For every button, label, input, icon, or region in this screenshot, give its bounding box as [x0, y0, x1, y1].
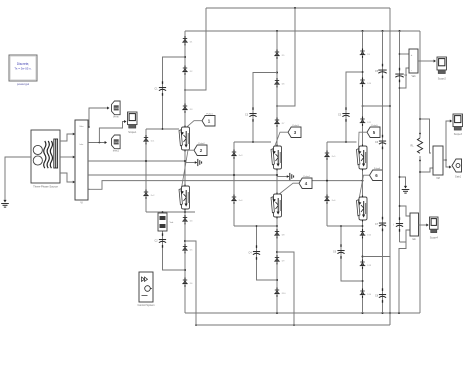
wire gate g1: [181, 121, 202, 132]
display THD: [452, 159, 462, 179]
svg-text:Scope1: Scope1: [128, 131, 137, 134]
RMS block Irms: [112, 135, 121, 152]
wire gate g3: [273, 132, 288, 151]
node leg2 riser: [276, 251, 278, 253]
svg-text:Iabc: Iabc: [80, 144, 84, 146]
from tag g3: [288, 125, 301, 138]
voltage measurement VM2: [433, 146, 443, 180]
svg-text:Scope2: Scope2: [438, 78, 447, 81]
wire phase A: [88, 160, 146, 162]
diode D7: [274, 118, 285, 127]
svg-text:Pulse6: Pulse6: [374, 168, 381, 170]
wire leg2 upper branch: [253, 73, 277, 143]
bus feed leg1: [184, 8, 206, 91]
diode D5: [182, 244, 193, 253]
diode Dc1 clamp: [143, 135, 155, 144]
svg-text:Three-Phase Source: Three-Phase Source: [33, 185, 58, 189]
wire leg3 box left: [326, 142, 328, 226]
wire leg2 box bottom: [234, 225, 278, 227]
wire vm2 minus: [419, 168, 433, 173]
diode D9: [360, 49, 371, 58]
wire leg3 rail: [362, 31, 364, 313]
wire vm3 minus: [406, 230, 410, 242]
IGBT g5: [357, 145, 368, 171]
wire leg2 phase tap: [233, 174, 278, 176]
wire leg1 box left: [145, 129, 147, 212]
svg-text:Vrms: Vrms: [113, 115, 119, 118]
IGBT g2: [179, 185, 190, 211]
diode D8: [274, 229, 285, 238]
diode D12: [360, 229, 372, 238]
diode D9: [274, 255, 285, 264]
wire leg3 riser: [363, 257, 391, 326]
ground symbol right: [402, 184, 410, 193]
node leg1 upper branch: [184, 56, 186, 58]
wire gate g4: [273, 183, 299, 199]
bus drop right: [389, 8, 391, 325]
capacitor C5: [375, 64, 387, 78]
wire leg3 upper branch: [346, 72, 363, 142]
dc source Vdc: [158, 213, 174, 231]
ground right mid: [399, 176, 406, 184]
wire vm3 out: [419, 224, 429, 227]
capacitor C6: [333, 244, 345, 258]
node vm1 minus: [399, 87, 401, 89]
current measurement VM3: [410, 213, 419, 241]
wire leg3 lower branch: [340, 225, 362, 281]
capacitor C9: [395, 68, 407, 82]
wire src-a: [60, 133, 75, 141]
wire phase C: [88, 181, 327, 190]
wire gate g5: [359, 132, 368, 151]
svg-text:VI: VI: [80, 202, 83, 205]
diode D14: [360, 289, 372, 298]
wire leg3 box bottom: [327, 225, 363, 227]
wire leg1 box top: [146, 128, 179, 130]
diode D4: [182, 215, 193, 224]
svg-text:Gain1: Gain1: [455, 177, 462, 179]
wire to scope1: [99, 120, 126, 142]
diode D10: [360, 78, 372, 87]
svg-text:RMS: RMS: [114, 142, 119, 144]
diode Dc5 clamp: [324, 151, 336, 160]
wire leg2 rail: [276, 31, 278, 313]
wire leg3 box top: [327, 141, 357, 143]
wire vm2 out: [443, 159, 447, 161]
node leg2 upper branch: [276, 72, 278, 74]
wire src-b: [60, 156, 75, 159]
wire src-c: [60, 173, 75, 183]
svg-text:VM: VM: [436, 177, 440, 180]
diode Dc2 clamp: [143, 190, 155, 199]
capacitor C6: [375, 135, 386, 149]
svg-text:Pulse4: Pulse4: [303, 176, 310, 178]
scope Scope1: [128, 112, 138, 134]
svg-text:Ts = 5e-05 s.: Ts = 5e-05 s.: [14, 67, 31, 71]
from tag g5: [367, 125, 380, 138]
svg-text:RMS: RMS: [114, 108, 119, 110]
node leg2 capjoin: [276, 279, 278, 281]
dc bus top: [206, 7, 390, 9]
svg-text:Pulse5: Pulse5: [371, 125, 378, 127]
wire source left: [5, 157, 31, 198]
wire leg1 rail: [184, 31, 186, 313]
voltage measurement VM1: [409, 49, 418, 78]
IGBT g6: [357, 196, 368, 222]
wire gate g2: [181, 150, 194, 191]
wire leg1 phase tap: [145, 160, 186, 162]
svg-text:Scope4: Scope4: [430, 237, 439, 240]
IGBT g3: [271, 145, 282, 171]
wire leg1 box bottom: [146, 211, 195, 213]
wire leg2 lower branch: [256, 225, 277, 280]
diode D6: [274, 78, 285, 87]
diode Dc4 clamp: [231, 195, 243, 204]
diode D6: [182, 278, 193, 287]
svg-text:Vabc: Vabc: [79, 126, 83, 128]
from tag g6: [370, 168, 383, 181]
scope Scope3: [453, 114, 463, 136]
RMS block Vrms: [112, 101, 121, 118]
wire cap column2: [399, 31, 401, 242]
wire vm1 plus: [400, 53, 410, 55]
svg-text:powergui: powergui: [17, 82, 30, 86]
diode Dc6 clamp: [324, 195, 336, 204]
resistor RL: [410, 133, 422, 162]
subsystem control system: [137, 272, 154, 307]
wire load branch: [419, 31, 421, 313]
diode D1: [182, 36, 193, 45]
dc bus mid: [185, 30, 420, 32]
wire leg3 phase tap: [326, 180, 364, 182]
dc bus bottom2: [195, 324, 390, 326]
diode D10: [274, 288, 286, 297]
svg-text:Irms1: Irms1: [113, 149, 120, 152]
bus feed leg2: [276, 8, 295, 107]
svg-text:Control System: Control System: [137, 304, 154, 307]
wire leg2 box top: [234, 141, 271, 143]
diode D2: [182, 66, 193, 75]
wire vm1 minus: [400, 68, 410, 88]
wire leg2 box left: [233, 142, 235, 226]
wire to Irms: [88, 141, 107, 144]
current sensor: [393, 217, 403, 231]
from tag g2: [194, 143, 207, 156]
wire to display: [446, 160, 452, 168]
node leg1 riser: [184, 240, 186, 242]
svg-text:-: -: [411, 68, 412, 72]
IGBT g1: [179, 126, 190, 152]
diode D13: [360, 260, 372, 269]
ground leg1: [185, 159, 202, 166]
svg-text:Pulse2: Pulse2: [198, 143, 205, 145]
dc bus bottom1: [185, 312, 420, 314]
node leg3 upper branch: [362, 71, 364, 73]
diode D5: [274, 50, 285, 59]
wire leg2 riser: [277, 252, 294, 325]
ground source: [1, 198, 9, 207]
wire cap column1: [382, 31, 384, 313]
svg-text:Pulse1: Pulse1: [206, 113, 213, 115]
wire vm1 out: [418, 60, 436, 63]
node vm1 plus: [399, 53, 401, 55]
wire sensor bottom: [399, 242, 406, 313]
capacitor C3: [245, 107, 257, 121]
wire phase B: [88, 174, 234, 176]
wire leg1 lower branch: [162, 211, 185, 270]
wire vm2 plus: [419, 118, 431, 153]
node leg3 capjoin: [362, 280, 364, 282]
capacitor C7: [375, 217, 386, 231]
from tag g4: [299, 176, 312, 189]
three-phase VI measurement: [73, 120, 90, 205]
svg-text:Vab: Vab: [411, 75, 416, 78]
svg-text:Pulse3: Pulse3: [292, 125, 299, 127]
capacitor C2: [155, 233, 167, 247]
wire leg1 riser: [185, 241, 196, 325]
diode D11: [360, 117, 372, 126]
wire vm3 plus: [399, 205, 410, 216]
node leg3 riser: [362, 256, 364, 258]
scope Scope2: [437, 57, 447, 81]
ground leg2: [277, 173, 294, 180]
capacitor C8: [375, 288, 386, 302]
wire gate g6: [359, 175, 370, 202]
svg-text:Scope3: Scope3: [454, 133, 463, 136]
diode Dc3 clamp: [231, 150, 243, 159]
capacitor C5: [338, 107, 350, 121]
diode D3: [182, 104, 193, 113]
IGBT g4: [271, 193, 282, 219]
scope Scope4: [430, 217, 439, 240]
from tag g1: [202, 113, 215, 126]
three-phase source: [31, 130, 60, 189]
bus feed leg3: [362, 105, 391, 107]
wire to scope3: [446, 120, 452, 160]
wire to Vrms: [88, 107, 110, 128]
svg-text:Discrete,: Discrete,: [17, 62, 30, 66]
node leg1 capjoin: [184, 269, 186, 271]
capacitor C1: [155, 81, 167, 95]
capacitor C4: [249, 245, 261, 259]
powergui block: [9, 55, 37, 86]
wire leg1 upper branch: [163, 57, 186, 129]
